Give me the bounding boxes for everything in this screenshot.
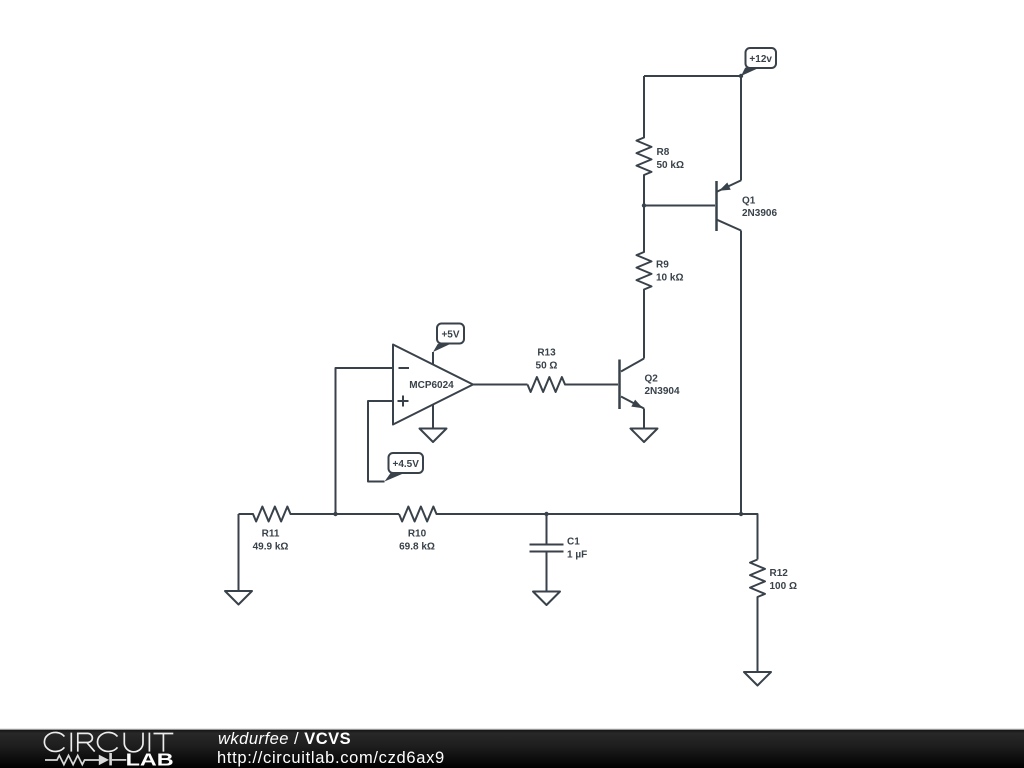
wire output bus xyxy=(547,514,758,560)
svg-text:Q1: Q1 xyxy=(742,196,756,207)
voltage label +5V box xyxy=(437,324,464,344)
voltage label +5V callout pointer xyxy=(433,344,451,352)
node output junction xyxy=(739,512,743,516)
svg-text:69.8 kΩ: 69.8 kΩ xyxy=(399,542,435,553)
voltage label +4.5V box xyxy=(389,453,424,473)
node C1 junction xyxy=(544,512,548,516)
node feedback junction xyxy=(333,512,337,516)
resistor R12 xyxy=(750,560,765,673)
svg-text:R13: R13 xyxy=(537,348,556,359)
svg-text:100 Ω: 100 Ω xyxy=(770,581,797,592)
op-amp power pin wire xyxy=(432,352,434,365)
transistor Q2 xyxy=(620,359,645,410)
resistor R10 xyxy=(399,507,547,522)
svg-text:R10: R10 xyxy=(408,529,427,540)
wire bus to R10 xyxy=(336,513,400,515)
wire op-amp non-inverting input xyxy=(368,401,393,482)
op-amp ground pin wire xyxy=(432,405,434,429)
svg-text:LAB: LAB xyxy=(126,750,174,768)
node +12v junction xyxy=(739,74,743,78)
ground below C1 xyxy=(533,592,560,606)
wire Q2 emitter xyxy=(643,409,645,429)
ground below R11 xyxy=(225,514,252,605)
op-amp minus symbol xyxy=(399,367,410,369)
op-amp plus symbol xyxy=(398,396,409,407)
footer bar xyxy=(0,729,1024,730)
voltage label +12v box xyxy=(746,48,777,68)
svg-text:C1: C1 xyxy=(567,537,580,548)
svg-text:+5V: +5V xyxy=(441,330,459,341)
ground below R12 xyxy=(744,672,771,686)
svg-text:1 µF: 1 µF xyxy=(567,550,587,561)
resistor R8 xyxy=(637,76,652,206)
svg-text:+12v: +12v xyxy=(749,54,772,65)
svg-text:http://circuitlab.com/czd6ax9: http://circuitlab.com/czd6ax9 xyxy=(217,749,445,767)
svg-text:49.9 kΩ: 49.9 kΩ xyxy=(253,542,289,553)
transistor Q1 xyxy=(717,180,742,231)
op-amp U1 MCP6024 xyxy=(393,345,473,425)
svg-text:Q2: Q2 xyxy=(645,374,659,385)
resistor R9 xyxy=(637,206,652,359)
svg-text:R9: R9 xyxy=(656,260,669,271)
svg-text:MCP6024: MCP6024 xyxy=(409,380,454,391)
ground below op-amp xyxy=(420,429,447,443)
wire Q1 collector down to output bus xyxy=(740,231,742,515)
capacitor C1 xyxy=(530,514,564,591)
svg-text:R11: R11 xyxy=(262,529,280,540)
ground below Q2 xyxy=(631,429,658,443)
voltage label +4.5V callout pointer xyxy=(385,473,404,481)
wire Q1 base xyxy=(644,205,715,207)
svg-text:50 Ω: 50 Ω xyxy=(536,361,558,372)
svg-text:+4.5V: +4.5V xyxy=(392,459,419,470)
node R8/R9/Q1 base junction xyxy=(642,203,646,207)
svg-text:wkdurfee / VCVS: wkdurfee / VCVS xyxy=(218,730,351,748)
CircuitLab logo schematic doodle xyxy=(45,753,126,765)
resistor R11 xyxy=(239,507,336,522)
svg-text:R12: R12 xyxy=(770,568,789,579)
svg-text:2N3904: 2N3904 xyxy=(645,386,680,397)
wire op-amp inverting input feedback xyxy=(336,368,394,514)
wire +12v top rail xyxy=(644,76,741,181)
svg-text:50 kΩ: 50 kΩ xyxy=(657,160,684,171)
svg-text:2N3906: 2N3906 xyxy=(742,208,777,219)
svg-text:10 kΩ: 10 kΩ xyxy=(656,273,683,284)
CircuitLab logo wordmark CIRCUIT xyxy=(44,732,173,751)
svg-text:R8: R8 xyxy=(657,147,670,158)
wire op-amp output xyxy=(473,384,528,386)
voltage label +12v callout pointer xyxy=(741,68,760,76)
resistor R13 xyxy=(528,377,619,392)
